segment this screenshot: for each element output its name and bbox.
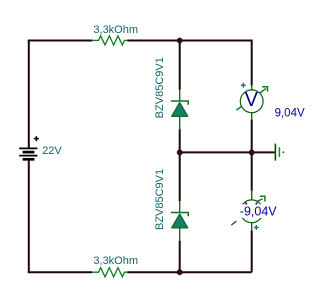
voltmeter U2 circle [240,200,263,223]
voltmeter U2 green pins [251,191,253,232]
resistor R2 zigzag (bottom) [93,268,128,277]
wire right branch mid (voltmeter U1 to mid junction to voltmeter U2) [251,120,253,191]
junction at top wire and zener branch [177,38,182,43]
zener diode D2 triangle [172,214,188,228]
voltmeter U1 circle [240,90,263,113]
svg-text:BZV85C9V1: BZV85C9V1 [154,57,166,118]
junction at mid wire and zener branch [177,150,182,155]
junction at mid wire and right branch [249,150,254,155]
voltmeter U1 green pins [251,85,253,121]
wire left vertical lower segment (battery bottom to bottom corner) [28,161,30,273]
voltmeter U2 plus sign [254,225,259,230]
wire left vertical upper segment (corner to battery top) [28,40,30,148]
voltmeter U2 arrowhead [260,196,265,201]
zener diode D2 (bottom) pins [179,201,181,241]
zener diode D1 (top) pins [179,90,181,130]
ground symbol bar 2 [278,147,280,157]
zener diode D1 triangle [172,103,188,117]
junction at bottom wire and zener branch [177,270,182,275]
wire middle branch lower (bottom zener to bottom junction) [179,241,181,272]
voltmeter U1 arrowhead [262,87,267,92]
voltmeter U2 letter V [245,199,259,221]
svg-text:9,04V: 9,04V [275,108,305,120]
wire right branch bottom (voltmeter U2 to bottom wire) [251,231,253,273]
ground symbol dot [282,151,284,153]
svg-text:3,3kOhm: 3,3kOhm [93,24,138,36]
voltmeter U1 plus sign [241,83,246,88]
resistor R2 value label 3,3kOhm (bottom) [93,255,138,267]
wire middle horizontal (zener midpoint to ground) [180,151,275,153]
voltmeter U1 letter V [245,89,259,111]
svg-text:3,3kOhm: 3,3kOhm [93,255,138,267]
ground symbol bar 1 [274,144,276,161]
zener diode D1 label BZV85C9V1 [154,57,166,118]
voltmeter U1 reading 9,04V [275,108,305,120]
wire top horizontal right of resistor R1 [127,40,251,42]
wire bottom horizontal left of resistor R2 [28,271,93,273]
svg-text:V: V [245,89,259,111]
battery V1 [19,148,37,159]
resistor R1 zigzag (top) [93,36,128,45]
resistor R1 value label 3,3kOhm (top) [93,24,138,36]
wire bottom horizontal right of resistor R2 [127,271,251,273]
svg-text:BZV85C9V1: BZV85C9V1 [154,169,166,230]
voltmeter U2 reading -9,04V [240,205,277,219]
zener diode D2 label BZV85C9V1 [154,169,166,230]
battery plus sign [34,136,39,141]
zener diode D2 cathode bar with bent end [171,213,188,217]
wire right branch top (top wire to voltmeter U1) [251,40,253,86]
svg-text:22V: 22V [42,145,62,157]
wire middle branch between zeners [179,129,181,201]
wire top horizontal left of resistor R1 [28,40,93,42]
voltmeter U2 (bottom) arrow shaft [231,199,262,225]
voltmeter U2 reading background [239,204,277,217]
zener diode D1 cathode bar with bent end [171,101,188,105]
voltmeter U1 (top) arrow shaft [236,89,266,111]
battery value label 22V [42,145,62,157]
wire middle branch upper (top junction to top zener) [179,40,181,90]
svg-text:-9,04V: -9,04V [240,205,277,219]
